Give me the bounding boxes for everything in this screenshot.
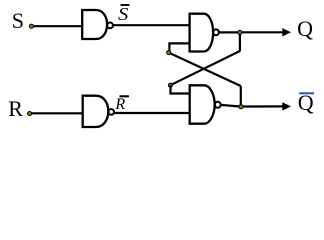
- nand U4 body (bottom): [190, 85, 215, 123]
- wire Rbar: [114, 112, 190, 114]
- wire Q arrow: [240, 31, 284, 33]
- inverter U1 output bubble: [107, 23, 113, 29]
- label S: [12, 10, 24, 32]
- wire R input: [30, 112, 83, 114]
- node A junction dot: [238, 30, 242, 34]
- wire Sbar: [113, 24, 190, 26]
- label R: [8, 98, 23, 120]
- nand U2 body (top): [190, 14, 214, 52]
- Sbar overline: [121, 4, 130, 6]
- nand U4 output bubble: [215, 102, 221, 108]
- nand U2 output bubble: [213, 29, 219, 35]
- node D1 dot: [167, 51, 171, 55]
- wire vertical down to node B: [240, 86, 242, 107]
- wire vertical from node A: [239, 32, 241, 51]
- label Qbar glyph: [298, 92, 314, 114]
- node S input dot: [29, 24, 33, 28]
- node D2 dot: [168, 83, 172, 87]
- node R input dot: [28, 112, 32, 116]
- label Rbar glyph: [115, 97, 125, 113]
- inverter U3 output bubble: [108, 109, 114, 115]
- wire D2 down and into U4 input 1: [171, 85, 190, 93]
- wire U2 output to junction A: [219, 31, 240, 33]
- wire U2 input 2 stub: [169, 43, 189, 52]
- label Sbar glyph: [118, 5, 128, 23]
- wire U4 output to junction B: [221, 105, 241, 107]
- node B junction dot: [239, 105, 243, 109]
- Rbar overline: [120, 95, 129, 97]
- inverter U1 (NAND-shaped, S input): [82, 10, 107, 39]
- Qbar blue overline: [299, 92, 314, 94]
- wire S input: [31, 25, 82, 27]
- label Q: [297, 18, 313, 40]
- wire Qbar arrow: [241, 105, 284, 107]
- inverter U3 (NAND-shaped, R input): [83, 96, 109, 127]
- wire cross diagonal from D1 down to B: [169, 53, 241, 86]
- wire cross diagonal from A down to D2: [170, 51, 240, 85]
